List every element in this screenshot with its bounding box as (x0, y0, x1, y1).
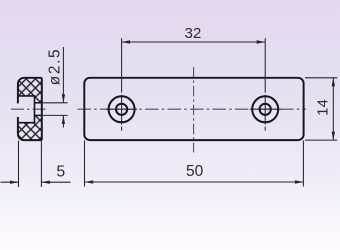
hole 1 counterbore circle (109, 96, 135, 122)
hatch top block (18, 78, 42, 96)
ext line top of small hole (42, 102, 68, 104)
section outline (left face has gap at hole) (18, 78, 42, 140)
svg-text:14: 14 (315, 99, 332, 116)
svg-text:50: 50 (186, 163, 204, 180)
ext line bottom (305, 139, 337, 141)
arrow pointing up at hole bottom (62, 115, 65, 124)
arrow left of 50 (85, 180, 94, 183)
arrow pointing right at left ext (10, 181, 19, 184)
right arrow tail (41, 181, 70, 183)
hatch right-mid upper (35, 96, 42, 103)
arrow pointing down at hole top (62, 94, 65, 103)
ext line left of 5 (18, 141, 20, 188)
dim line 32 (122, 41, 266, 43)
arrow top of 14 (332, 78, 335, 87)
ext line right of 5 (40, 141, 42, 188)
arrow bottom of 14 (332, 132, 335, 141)
small hole slot bottom line (35, 114, 42, 116)
leader upper tail (62, 47, 64, 103)
ext line top (305, 77, 337, 79)
ext line bottom of small hole (42, 114, 68, 116)
arrow pointing left at right ext (41, 181, 50, 184)
svg-text:32: 32 (184, 25, 201, 42)
hole 1 vertical centerline / ext line for 32 (121, 38, 123, 130)
ext line left of 50 (84, 141, 86, 187)
small hole slot top line (35, 102, 42, 104)
counterbore box (19, 96, 35, 123)
dim line 50 (85, 181, 304, 183)
svg-text:ø2.5: ø2.5 (47, 48, 64, 85)
hole 1 inner circle (116, 104, 127, 115)
arrow left of 32 (122, 40, 131, 43)
vertical centerline middle of plate (193, 67, 195, 153)
hatch bottom block (18, 123, 42, 140)
horizontal centerline through holes (78, 108, 307, 110)
lower tail (62, 115, 64, 127)
hatch right-mid lower (35, 115, 42, 122)
centerline gaps (bg colored) (122, 93, 266, 127)
solid centerline segment through hole 2 (250, 108, 281, 110)
hole 2 inner circle (260, 104, 271, 115)
svg-text:5: 5 (56, 164, 65, 181)
left arrow tail (1, 181, 19, 183)
arrow right of 32 (257, 40, 266, 43)
solid centerline segment through hole 1 (106, 108, 137, 110)
ext line right of 50 (302, 141, 304, 187)
side view centerline (11, 108, 48, 110)
plate outline rounded rect (84, 78, 303, 140)
arrow right of 50 (295, 180, 304, 183)
hole 2 counterbore circle (252, 96, 278, 122)
hole 2 vertical centerline / ext line for 32 (264, 38, 266, 130)
dim line 14 (332, 78, 334, 140)
